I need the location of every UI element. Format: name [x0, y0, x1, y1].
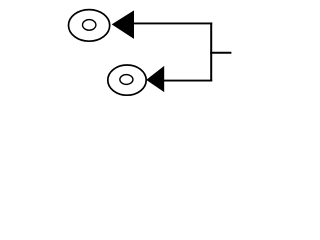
stub wire to right terminal	[210, 52, 231, 54]
indicator lamp L2 inner ellipse	[120, 75, 133, 85]
indicator lamp L1 outer ellipse	[69, 10, 110, 42]
arrowhead D2 into L2	[146, 66, 164, 92]
arrowhead D1 into L1	[112, 10, 134, 39]
wire from D1 to bus (top)	[133, 22, 212, 24]
indicator lamp L2 outer ellipse	[108, 65, 146, 95]
indicator lamp L1 inner ellipse	[83, 20, 96, 31]
vertical bus wire	[210, 22, 212, 81]
wire from D2 to bus (bottom)	[163, 80, 212, 82]
